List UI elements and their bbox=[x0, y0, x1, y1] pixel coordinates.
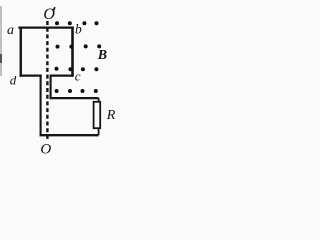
svg-text:O: O bbox=[40, 142, 51, 158]
wire from c to right leg bbox=[51, 74, 74, 76]
svg-text:B: B bbox=[97, 48, 107, 63]
wire ab top of loop bbox=[18, 27, 73, 29]
left leg wire down bbox=[40, 75, 42, 137]
wire bc right of loop bbox=[71, 27, 74, 77]
svg-text:a: a bbox=[7, 23, 14, 38]
prime mark of O' bbox=[53, 7, 55, 11]
resistor R box bbox=[94, 102, 101, 128]
wire ad left of loop bbox=[20, 27, 22, 77]
left edge artifact dark bbox=[0, 54, 2, 63]
bottom wire bbox=[40, 134, 99, 136]
right leg wire down bbox=[50, 75, 52, 100]
svg-text:R: R bbox=[106, 108, 116, 123]
resistor top stub bbox=[98, 98, 100, 102]
svg-text:b: b bbox=[75, 21, 82, 36]
field dots row 2 bbox=[56, 44, 102, 48]
top wire to resistor bbox=[50, 97, 99, 99]
field dots row 4 bbox=[55, 89, 98, 93]
field dots row 3 bbox=[55, 67, 99, 72]
resistor bottom stub bbox=[98, 128, 100, 135]
field dots row 1 bbox=[55, 21, 99, 25]
background bbox=[0, 0, 116, 158]
left edge artifact faint bbox=[0, 6, 2, 76]
axis O'O dashed bbox=[46, 21, 48, 140]
svg-text:c: c bbox=[75, 69, 81, 84]
svg-text:d: d bbox=[10, 72, 17, 87]
wire from d to left leg bbox=[20, 74, 42, 76]
